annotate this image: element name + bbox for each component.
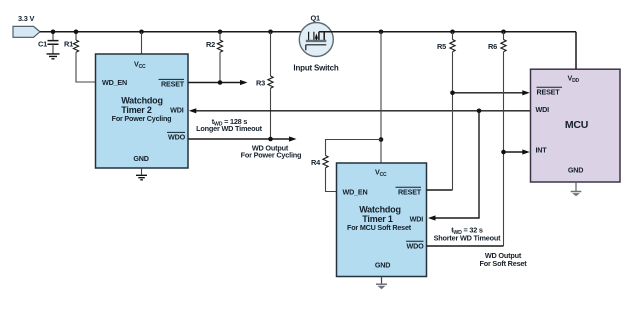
svg-text:Longer WD Timeout: Longer WD Timeout	[196, 124, 263, 133]
svg-text:R3: R3	[256, 79, 265, 88]
svg-text:WD_EN: WD_EN	[102, 78, 127, 87]
svg-text:R5: R5	[437, 42, 446, 51]
svg-text:C1: C1	[38, 40, 47, 49]
svg-text:R4: R4	[311, 158, 321, 167]
svg-text:For Power Cycling: For Power Cycling	[112, 114, 172, 123]
ground (Timer 2)	[136, 175, 147, 180]
wire: Timer 2 WDO output with arrow	[188, 136, 297, 141]
svg-text:RESET: RESET	[537, 87, 561, 96]
wire: GND stub of MCU	[575, 182, 577, 191]
wire: Timer 1 WDO to R6 line	[427, 245, 504, 247]
svg-text:R2: R2	[206, 40, 215, 49]
svg-text:WDO: WDO	[168, 132, 186, 141]
wire: 3.3V rail left segment	[40, 31, 314, 33]
wire: WDI branch down to Timer 1	[428, 111, 479, 221]
svg-text:RESET: RESET	[398, 188, 422, 197]
wire: MCU RESET arrow	[450, 90, 530, 95]
power flag 3.3V	[13, 14, 40, 37]
wire: Timer 1 RESET to R5 line	[427, 189, 453, 191]
capacitor C1	[38, 32, 59, 54]
wire: GND stub of Timer 2	[141, 168, 143, 175]
ground (MCU)	[571, 192, 582, 197]
svg-text:WDI: WDI	[170, 106, 184, 115]
svg-text:For MCU Soft Reset: For MCU Soft Reset	[347, 223, 412, 232]
resistor R5	[437, 32, 455, 190]
svg-text:GND: GND	[375, 261, 390, 270]
wire: R2 down to RESET line	[219, 52, 221, 82]
svg-text:Q1: Q1	[311, 14, 321, 23]
svg-text:R1: R1	[64, 40, 73, 49]
wire: GND stub of Timer 1	[381, 277, 383, 285]
svg-text:WD_EN: WD_EN	[343, 188, 368, 197]
svg-text:INT: INT	[536, 145, 548, 154]
svg-text:GND: GND	[133, 154, 148, 163]
svg-text:WDI: WDI	[410, 215, 424, 224]
resistor R1	[64, 32, 79, 52]
watchdog timer U1 block	[337, 163, 427, 277]
node: junction R4 branch	[379, 137, 384, 142]
MCU U3 block	[531, 69, 621, 182]
wire: WDI line from MCU to Timer 2	[189, 108, 531, 113]
node: WDI branch junction	[477, 109, 482, 114]
svg-text:Shorter WD Timeout: Shorter WD Timeout	[434, 234, 502, 243]
wire: VCC line of Timer 1	[380, 32, 382, 163]
svg-text:WDI: WDI	[536, 105, 550, 114]
wire: R1 to WD_EN of Timer 2	[76, 52, 96, 82]
svg-text:WDO: WDO	[407, 242, 425, 251]
svg-text:For Power Cycling: For Power Cycling	[241, 151, 302, 160]
resistor R3	[256, 32, 273, 139]
wire: VCC stub of Timer 2	[141, 32, 143, 54]
svg-text:GND: GND	[568, 166, 583, 175]
resistor R6	[488, 32, 506, 246]
node: rail junction dots	[51, 30, 506, 35]
svg-text:Input Switch: Input Switch	[293, 63, 338, 72]
svg-text:For Soft Reset: For Soft Reset	[479, 259, 527, 268]
svg-text:3.3 V: 3.3 V	[18, 14, 35, 23]
wire: INT arrow	[501, 149, 530, 154]
svg-text:MCU: MCU	[565, 119, 588, 131]
resistor R4	[311, 140, 381, 192]
ground (Timer 1)	[376, 284, 387, 289]
svg-text:RESET: RESET	[161, 79, 185, 88]
watchdog timer U2 block	[96, 54, 189, 168]
resistor R2	[206, 32, 223, 52]
transistor Q1	[293, 14, 576, 73]
wire: rail drop to MCU VDD	[575, 32, 577, 69]
wire: Timer 2 RESET output with arrow	[188, 80, 248, 85]
svg-text:R6: R6	[488, 42, 497, 51]
ground (C1)	[47, 54, 60, 59]
